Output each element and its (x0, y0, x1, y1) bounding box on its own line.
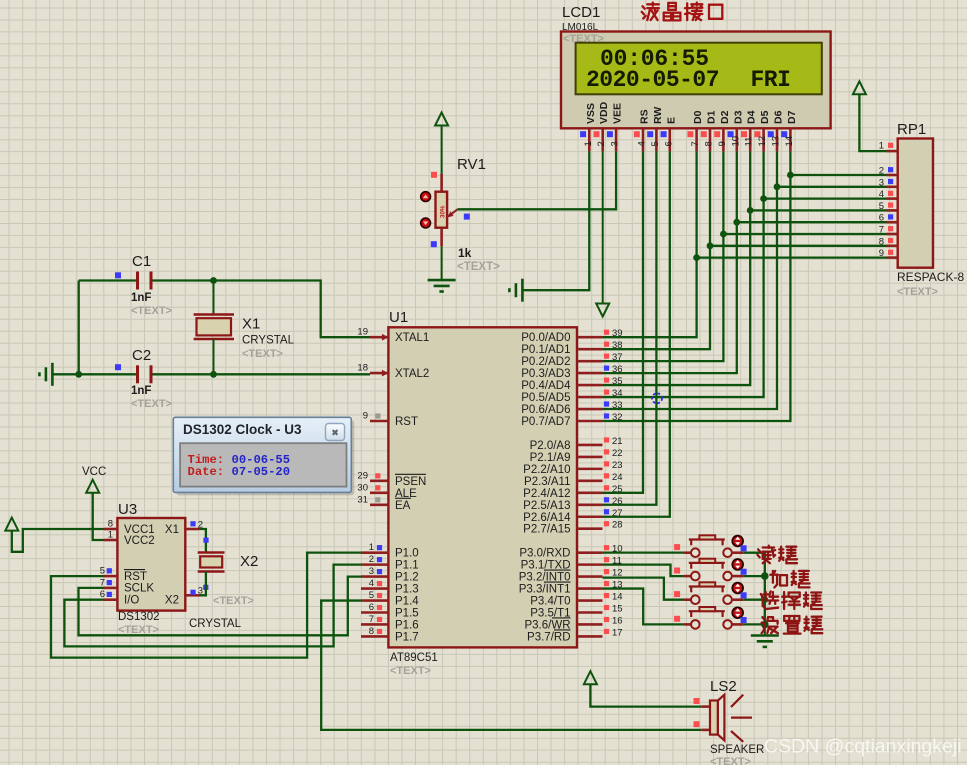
svg-text:P0.3/AD3: P0.3/AD3 (521, 368, 570, 380)
svg-text:P1.1: P1.1 (395, 560, 419, 572)
svg-text:13: 13 (771, 136, 782, 147)
RP1 pin 5 (887, 209, 898, 212)
wire speaker bottom to U1 P1.4 (321, 601, 701, 730)
svg-text:1: 1 (108, 530, 113, 541)
potentiometer RV1 body (436, 192, 448, 228)
svg-text:9: 9 (717, 141, 728, 146)
svg-text:30%: 30% (440, 205, 447, 218)
U3 pin 3 X2 (185, 594, 199, 597)
junction bus row3 (762, 596, 769, 603)
wire power to speaker top (590, 684, 701, 706)
svg-text:8: 8 (704, 141, 715, 146)
label 加键 (770, 571, 809, 588)
wire D6 : LCD pin13 to U1 P0.6 and RP1 pin3 (603, 151, 778, 409)
svg-text:RV1: RV1 (457, 156, 486, 173)
U1 pin 8 P1.7 (361, 635, 388, 638)
svg-text:VSS: VSS (585, 103, 597, 124)
U3 pin 1 VCC2 (104, 539, 117, 542)
svg-text:8: 8 (879, 236, 884, 247)
svg-text:D3: D3 (732, 110, 744, 124)
svg-text:9: 9 (363, 410, 368, 421)
U1 pin 37 P0.2/AD2 (577, 360, 603, 363)
junction bus row2 (761, 572, 769, 580)
svg-text:PSEN: PSEN (395, 476, 426, 488)
svg-text:23: 23 (612, 460, 623, 471)
wire X2 crystal top lead (199, 529, 206, 553)
svg-text:VEE: VEE (612, 103, 624, 124)
popup close button (326, 424, 345, 441)
svg-text:RST: RST (124, 571, 147, 583)
svg-text:22: 22 (612, 448, 623, 459)
svg-text:P1.4: P1.4 (395, 596, 419, 608)
svg-text:RESPACK-8: RESPACK-8 (897, 270, 964, 284)
svg-text:EA: EA (395, 500, 411, 512)
U3 pin 8 VCC1 (104, 528, 117, 531)
RV1 bottom state square (431, 241, 437, 247)
svg-text:DS1302 Clock - U3: DS1302 Clock - U3 (183, 422, 302, 437)
U3 pin 7 SCLK (104, 587, 117, 590)
RP1 pin 2 (887, 174, 898, 177)
svg-text:P2.1/A9: P2.1/A9 (530, 452, 571, 464)
svg-text:<TEXT>: <TEXT> (390, 665, 431, 677)
svg-text:P3.0/RXD: P3.0/RXD (519, 548, 570, 560)
svg-text:P2.4/A12: P2.4/A12 (523, 488, 570, 500)
wire left power to U3 VCC1 (12, 529, 104, 552)
U1 pin 26 P2.5/A13 (577, 503, 603, 506)
X2 crystal state square (203, 538, 208, 543)
power terminal (up arrow) at RP1 (853, 81, 866, 94)
svg-text:1k: 1k (458, 246, 472, 260)
svg-text:D2: D2 (719, 110, 731, 124)
LCD LCD1 body (561, 32, 831, 129)
svg-text:<TEXT>: <TEXT> (710, 756, 751, 765)
svg-text:P3.3/INT1: P3.3/INT1 (519, 584, 571, 596)
svg-text:<TEXT>: <TEXT> (213, 595, 254, 607)
junction C1/X1 (210, 277, 217, 284)
svg-text:16: 16 (612, 615, 623, 626)
junction D4/RP1 (747, 207, 754, 214)
U1 pin 27 P2.6/A14 (577, 515, 603, 518)
svg-text:P2.5/A13: P2.5/A13 (523, 500, 570, 512)
mcu U1 AT89C51 body (388, 327, 577, 647)
RV1 top stub (440, 174, 443, 192)
U1 pin 3 P1.2 (361, 575, 388, 578)
svg-text:30: 30 (357, 482, 368, 493)
svg-text:CSDN @cqtianxingkeji: CSDN @cqtianxingkeji (764, 736, 962, 758)
svg-text:P2.6/A14: P2.6/A14 (523, 512, 571, 524)
popup inner panel (180, 443, 346, 486)
svg-text:2: 2 (369, 554, 374, 565)
U3 pin 5 RST (104, 575, 117, 578)
svg-text:<TEXT>: <TEXT> (131, 305, 172, 317)
wire C1 top net to XTAL1 (79, 279, 137, 281)
wire D3 : LCD pin10 to U1 P0.3 and RP1 pin6 (603, 151, 737, 373)
svg-text:24: 24 (612, 472, 623, 483)
wire D2 : LCD pin9 to U1 P0.2 and RP1 pin7 (603, 151, 724, 361)
svg-text:C2: C2 (132, 347, 151, 364)
C2 state square (115, 364, 121, 370)
wire P3.3 to button4 (603, 589, 685, 625)
RP1 pin 4 (887, 197, 898, 200)
svg-text:P0.0/AD0: P0.0/AD0 (521, 332, 570, 344)
power terminal (up arrow) at speaker (584, 671, 597, 684)
U1 pin 22 P2.1/A9 (577, 456, 603, 459)
RV1 bottom stub (440, 228, 443, 246)
U1 pin 18 XTAL2 (370, 372, 388, 375)
svg-text:2: 2 (596, 141, 607, 146)
U1 pin 38 P0.1/AD1 (577, 348, 603, 351)
junction D3/RP1 (733, 219, 740, 226)
svg-text:4: 4 (637, 141, 648, 146)
svg-text:1: 1 (369, 542, 374, 553)
svg-text:P0.1/AD1: P0.1/AD1 (521, 344, 570, 356)
U1 pin 19 XTAL1 (370, 336, 388, 339)
U1 pin 1 P1.0 (361, 551, 388, 554)
RV1 +/- control bottom (421, 218, 431, 228)
svg-text:I/O: I/O (124, 595, 139, 607)
svg-text:Date:: Date: (188, 465, 225, 479)
svg-text:CRYSTAL: CRYSTAL (242, 335, 295, 347)
svg-text:P1.7: P1.7 (395, 631, 419, 643)
wire D0 : LCD pin7 to U1 P0.0 and RP1 pin9 (603, 151, 697, 337)
wire D7 : LCD pin14 to U1 P0.7 and RP1 pin2 (603, 151, 791, 421)
C1 state square (115, 272, 121, 278)
U3 pin 6 I/O (104, 598, 117, 601)
svg-text:1: 1 (583, 141, 594, 146)
marker: blue dashed circle on P0.5 net (652, 393, 662, 403)
svg-text:X1: X1 (242, 316, 260, 333)
wire RP1 pin1 to power (859, 94, 886, 151)
svg-text:RP1: RP1 (897, 121, 926, 138)
svg-text:LCD1: LCD1 (562, 4, 600, 21)
svg-text:7: 7 (690, 141, 701, 146)
junction D6/RP1 (774, 183, 781, 190)
svg-text:RS: RS (639, 109, 651, 124)
junction D5/RP1 (760, 195, 767, 202)
svg-text:FRI: FRI (751, 67, 791, 93)
svg-text:E: E (665, 117, 677, 124)
U1 pin 9 RST (370, 420, 388, 423)
svg-text:<TEXT>: <TEXT> (897, 286, 938, 298)
U1 pin 30 ALE (370, 492, 388, 495)
svg-text:2020-05-07: 2020-05-07 (586, 67, 719, 93)
svg-text:8: 8 (108, 519, 113, 530)
svg-text:P1.0: P1.0 (395, 548, 419, 560)
wire VCC to RV1 top (441, 126, 443, 176)
U1 pin 33 P0.6/AD6 (577, 408, 603, 411)
svg-text:3: 3 (879, 177, 884, 188)
U1 pin 12 P3.2/INT0 (577, 575, 603, 578)
svg-text:RST: RST (395, 416, 418, 428)
capacitor C1 (136, 272, 139, 290)
wire RV1 wiper to LCD VEE (458, 151, 617, 209)
svg-text:✖: ✖ (331, 428, 339, 438)
svg-text:5: 5 (369, 590, 374, 601)
svg-text:P0.2/AD2: P0.2/AD2 (521, 356, 570, 368)
RP1 pin 1 (887, 150, 898, 153)
speaker sound waves (731, 695, 743, 707)
svg-text:1: 1 (879, 141, 884, 152)
U1 pin 11 P3.1/TXD (577, 563, 603, 566)
wire VSS to ground (522, 151, 589, 290)
svg-text:4: 4 (369, 578, 374, 589)
wire E : LCD pin6 to U1 pin27 (603, 151, 670, 516)
svg-text:14: 14 (784, 136, 795, 147)
RV1 wiper state square (464, 214, 470, 220)
ground (rotated) at C2 net (51, 363, 54, 386)
svg-text:28: 28 (612, 520, 623, 531)
svg-text:<TEXT>: <TEXT> (242, 348, 283, 360)
button left terminal (684, 551, 691, 554)
wire D4 : LCD pin11 to U1 P0.4 and RP1 pin5 (603, 151, 751, 385)
svg-text:6: 6 (663, 141, 674, 146)
svg-text:D7: D7 (786, 110, 798, 124)
wire P3.2 to button3 (603, 578, 685, 600)
svg-text:9: 9 (879, 248, 884, 259)
svg-text:P1.6: P1.6 (395, 619, 419, 631)
svg-text:P0.4/AD4: P0.4/AD4 (521, 380, 571, 392)
svg-text:P0.5/AD5: P0.5/AD5 (521, 392, 570, 404)
power terminal (down arrow) at VDD (596, 304, 609, 317)
U1 pin 34 P0.5/AD5 (577, 396, 603, 399)
U1 pin 36 P0.3/AD3 (577, 372, 603, 375)
svg-text:3: 3 (610, 141, 621, 146)
power terminal (up arrow) far left (5, 518, 18, 531)
capacitor C2 (136, 365, 139, 383)
RP1 pin 8 (887, 245, 898, 248)
svg-text:X2: X2 (165, 595, 179, 607)
RV1 +/- control top (421, 192, 431, 202)
svg-text:21: 21 (612, 436, 623, 447)
svg-text:RW: RW (652, 107, 664, 124)
svg-text:5: 5 (650, 141, 661, 146)
U1 pin 21 P2.0/A8 (577, 444, 603, 447)
svg-text:2: 2 (879, 166, 884, 177)
svg-text:CRYSTAL: CRYSTAL (189, 618, 242, 630)
wire button common bus (744, 553, 765, 625)
crystal X2 (198, 551, 225, 553)
label 选择键 (761, 591, 822, 609)
svg-text:C1: C1 (132, 253, 151, 270)
svg-text:SCLK: SCLK (124, 583, 154, 595)
svg-text:D1: D1 (706, 110, 718, 124)
U1 pin 17 P3.7/RD (577, 635, 603, 638)
wire SCLK net: U3 pin7 to U1 P1.2 (79, 577, 362, 636)
RV1 top state square (431, 172, 437, 178)
svg-text:P2.0/A8: P2.0/A8 (530, 440, 571, 452)
resistor pack RP1 body (898, 139, 933, 268)
U1 pin 16 P3.6/WR (577, 623, 603, 626)
wire RV1 to ground (441, 246, 443, 279)
svg-text:5: 5 (879, 201, 884, 212)
svg-text:4: 4 (879, 189, 884, 200)
U1 pin 35 P0.4/AD4 (577, 384, 603, 387)
svg-text:7: 7 (879, 225, 884, 236)
svg-text:P1.2: P1.2 (395, 572, 419, 584)
svg-text:17: 17 (612, 627, 623, 638)
junction D1/RP1 (707, 242, 714, 249)
junction bus row4 (761, 621, 769, 629)
svg-text:P0.7/AD7: P0.7/AD7 (521, 416, 570, 428)
wire bus to ground (764, 624, 766, 635)
wire X2 crystal bottom lead (199, 572, 206, 596)
svg-text:DS1302: DS1302 (118, 611, 160, 623)
label 减键 (757, 546, 797, 564)
U1 pin 13 P3.3/INT1 (577, 587, 603, 590)
speaker LS2 (701, 705, 710, 708)
svg-text:31: 31 (357, 494, 368, 505)
svg-text:P2.7/A15: P2.7/A15 (523, 524, 570, 536)
svg-text:29: 29 (357, 470, 368, 481)
crystal X1 (194, 313, 234, 315)
button left terminal (684, 575, 691, 578)
svg-text:P1.5: P1.5 (395, 608, 419, 620)
U1 pin 23 P2.2/A10 (577, 468, 603, 471)
svg-text:<TEXT>: <TEXT> (457, 261, 500, 273)
wire VDD to power terminal (602, 151, 604, 303)
wire C2 net to XTAL2 (52, 373, 136, 375)
svg-text:P1.3: P1.3 (395, 584, 419, 596)
title 液晶接口 (red) (642, 3, 723, 21)
svg-text:1nF: 1nF (131, 292, 151, 304)
U1 pin 4 P1.3 (361, 587, 388, 590)
wire RW : LCD pin5 to U1 pin26 (603, 151, 657, 504)
U1 pin 39 P0.0/AD0 (577, 336, 603, 339)
junction D0/RP1 (693, 254, 700, 261)
U1 pin 25 P2.4/A12 (577, 492, 603, 495)
button left terminal (684, 598, 691, 601)
svg-text:18: 18 (357, 363, 368, 374)
svg-text:14: 14 (612, 592, 623, 603)
svg-text:10: 10 (730, 136, 741, 147)
svg-text:P0.6/AD6: P0.6/AD6 (521, 404, 570, 416)
U1 pin 29 PSEN (370, 480, 388, 483)
svg-text:XTAL2: XTAL2 (395, 368, 429, 380)
U1 pin 7 P1.6 (361, 623, 388, 626)
svg-text:VCC2: VCC2 (124, 535, 155, 547)
svg-text:D4: D4 (746, 110, 758, 124)
U1 pin 10 P3.0/RXD (577, 551, 603, 554)
svg-text:07-05-20: 07-05-20 (232, 465, 291, 479)
U1 pin 6 P1.5 (361, 611, 388, 614)
RP1 pin 9 (887, 256, 898, 259)
speaker state squares (694, 698, 700, 704)
U1 pin 14 P3.4/T0 (577, 599, 603, 602)
wire P3.1 to button2 (603, 565, 685, 576)
svg-text:D5: D5 (759, 110, 771, 124)
svg-text:SPEAKER: SPEAKER (710, 744, 764, 756)
LCD pin numbers 1-14 (rotated) (583, 136, 795, 147)
svg-text:6: 6 (879, 213, 884, 224)
svg-text:7: 7 (369, 614, 374, 625)
ground below buttons (751, 634, 779, 637)
ground (rotated) at VSS (521, 279, 524, 302)
U1 pin 5 P1.4 (361, 599, 388, 602)
U1 pin 2 P1.1 (361, 563, 388, 566)
svg-text:P3.7/RD: P3.7/RD (527, 631, 570, 643)
U3 pin 2 X1 (185, 528, 199, 531)
junction D2/RP1 (720, 231, 727, 238)
svg-text:VCC: VCC (82, 466, 106, 478)
svg-text:P3.4/T0: P3.4/T0 (530, 596, 570, 608)
wire C1-C2 left link (78, 281, 80, 375)
wire X1 bottom lead (213, 339, 215, 374)
svg-text:D6: D6 (773, 110, 785, 124)
U1 pin 28 P2.7/A15 (577, 527, 603, 530)
U1 pin 31 EA (370, 503, 388, 506)
svg-text:12: 12 (757, 136, 768, 147)
label 设置键 (762, 616, 823, 634)
svg-text:VDD: VDD (598, 101, 610, 124)
U1 pin 32 P0.7/AD7 (577, 420, 603, 423)
wire RS : LCD pin4 to U1 pin25 (603, 151, 644, 492)
svg-text:AT89C51: AT89C51 (390, 652, 438, 664)
RP1 pin 6 (887, 221, 898, 224)
wire VCC to U3 VCC2 (93, 493, 104, 540)
LCD screen (576, 43, 822, 95)
svg-text:1nF: 1nF (131, 385, 151, 397)
RV1 wiper arrow (450, 209, 458, 215)
svg-text:X2: X2 (240, 553, 258, 570)
LCD pin state squares (580, 131, 787, 137)
svg-text:P2.2/A10: P2.2/A10 (523, 464, 570, 476)
junction C2/X1 (210, 371, 217, 378)
svg-text:<TEXT>: <TEXT> (131, 398, 172, 410)
U1 pin 15 P3.5/T1 (577, 611, 603, 614)
power terminal VCC (up arrow) (86, 480, 99, 493)
wire D5 : LCD pin12 to U1 P0.5 and RP1 pin4 (603, 151, 764, 397)
svg-text:U1: U1 (389, 309, 408, 326)
wire RST net: U3 pin5 to U1 P1.0 (51, 553, 361, 658)
power terminal (up arrow) above RV1 (435, 113, 448, 126)
svg-text:X1: X1 (165, 524, 179, 536)
svg-text:D0: D0 (692, 110, 704, 124)
svg-text:LS2: LS2 (710, 678, 737, 695)
wire X1 top lead (213, 281, 215, 315)
RP1 pin 7 (887, 233, 898, 236)
svg-text:XTAL1: XTAL1 (395, 332, 429, 344)
wire D1 : LCD pin8 to U1 P0.1 and RP1 pin8 (603, 151, 711, 349)
svg-text:8: 8 (369, 626, 374, 637)
svg-text:6: 6 (369, 602, 374, 613)
button left terminal (684, 623, 691, 626)
RP1 pin 3 (887, 186, 898, 189)
svg-text:15: 15 (612, 604, 623, 615)
svg-text:3: 3 (369, 566, 374, 577)
wire I/O net: U3 pin6 to U1 P1.1 (64, 565, 361, 647)
svg-text:U3: U3 (118, 501, 137, 518)
LCD pin names (rotated) (585, 101, 798, 124)
junction D7/RP1 (787, 172, 794, 179)
wire P3.0 to button1 (603, 552, 685, 554)
junction link/C2 (75, 371, 82, 378)
svg-text:11: 11 (744, 137, 755, 147)
LCD pin stubs 1-14 (589, 129, 790, 152)
U1 pin 24 P2.3/A11 (577, 480, 603, 483)
ground below RV1 (428, 279, 456, 282)
svg-text:P2.3/A11: P2.3/A11 (524, 476, 570, 488)
